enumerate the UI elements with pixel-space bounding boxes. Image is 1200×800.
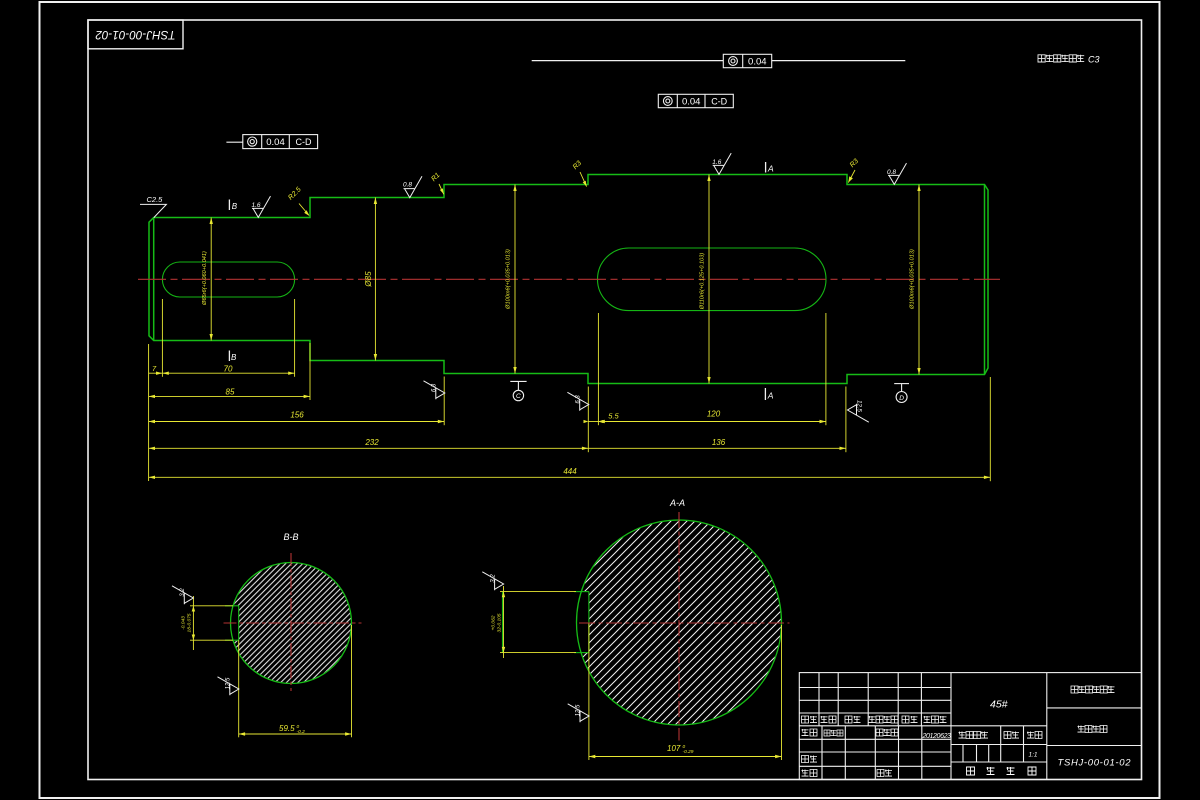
svg-text:A: A [767,391,774,401]
section mark A bottom [765,388,773,401]
svg-text:C: C [516,393,521,400]
fillet label R1 [430,172,444,195]
svg-text:156: 156 [290,411,304,420]
dimension dia100m6 right [910,185,921,375]
svg-text:1:1: 1:1 [1029,752,1038,759]
section A-A keyway notch [503,592,589,653]
svg-text:Ø85: Ø85 [364,271,373,288]
svg-text:0.04: 0.04 [748,57,767,68]
svg-text:136: 136 [712,438,726,447]
svg-text:107: 107 [667,744,681,753]
stage mark weight scale labels [959,732,1043,739]
section B-B roughness 12.5 [218,677,239,696]
svg-text:0.04: 0.04 [266,137,285,148]
section B-B keyway notch [225,606,239,640]
section mark B bottom [229,351,237,363]
section B-B width dim 59.5 [239,625,352,737]
datum C [510,381,526,400]
svg-text:Ø100m6(+0.035+0.013): Ø100m6(+0.035+0.013) [506,249,512,310]
svg-text:0.8: 0.8 [887,169,896,176]
svg-text:C-D: C-D [711,97,727,107]
section B-B keyway width dim [181,596,234,650]
extension lines lower dims [149,299,991,481]
svg-text:-0.29: -0.29 [683,749,694,755]
keyway slot S4 [598,248,827,311]
chamfer line right end [984,185,986,375]
svg-text:B: B [231,353,237,362]
svg-text:18-0.075: 18-0.075 [187,613,193,632]
fillet label R3 at S4/S5 [848,158,860,183]
shaft outline [149,175,988,384]
roughness 1.6 on S4 [712,153,731,174]
roughness 0.8 on S2 [403,176,422,197]
chamfer line left end [153,218,155,341]
section B-B hatched circle [192,560,354,686]
section A-A keyway width dim [491,586,577,658]
svg-text:59.5: 59.5 [279,724,295,733]
dimension 5.5 [584,411,620,423]
roughness 0.8 on S5 [887,163,907,184]
title block header row labels [802,716,947,723]
dimension 7 and 70 [149,364,295,375]
dimension 136 [588,438,846,450]
svg-text:444: 444 [563,467,577,476]
svg-text:-0.043: -0.043 [181,616,187,630]
svg-text:120: 120 [707,409,721,418]
svg-text:12.5: 12.5 [576,704,582,716]
svg-text:6.3: 6.3 [575,395,581,404]
section A-A roughness 12.5 [568,704,589,723]
roughness 12.5 at S4/S5 shoulder [848,400,869,422]
tolerance frame concentricity 0.04 C-D middle [658,94,733,107]
svg-text:3.2: 3.2 [180,588,186,597]
svg-text:0: 0 [683,744,686,750]
svg-text:C3: C3 [1088,55,1100,65]
dimension dia85 [364,198,377,361]
svg-text:+0.062: +0.062 [491,615,497,630]
part name [1078,726,1108,733]
svg-text:1.6: 1.6 [252,202,261,209]
svg-text:32-0.105: 32-0.105 [497,613,503,632]
title block row design [802,729,952,740]
tolerance frame concentricity 0.04 top [532,54,906,67]
main centerline [138,278,1000,280]
section mark B top [229,200,237,212]
dimension 232 [149,438,589,450]
svg-text:6.3: 6.3 [432,383,438,392]
section A-A hatched circle [501,519,785,729]
svg-text:3.2: 3.2 [490,574,496,583]
dimension 120 [598,409,826,423]
svg-text:0.04: 0.04 [682,97,701,108]
roughness 6.3 at S2/S3 shoulder [424,381,445,400]
fillet label R2.5 [287,186,309,216]
svg-text:A-A: A-A [669,498,685,508]
note unnoted chamfers C3 [1038,55,1100,65]
svg-text:1.6: 1.6 [712,159,721,166]
svg-text:0: 0 [297,724,300,730]
university name [1071,686,1115,693]
tolerance frame concentricity 0.04 C-D left [226,135,317,149]
dimension 444 [149,467,991,479]
dimension 85 [149,387,310,398]
svg-text:TSHJ-00-01-02: TSHJ-00-01-02 [95,28,176,40]
datum D [894,384,909,403]
svg-text:0.8: 0.8 [403,181,412,188]
svg-text:232: 232 [364,438,379,447]
svg-text:Ø110r6(+0.125+0.103): Ø110r6(+0.125+0.103) [700,253,706,311]
svg-text:C-D: C-D [296,137,312,147]
dimension 156 [149,411,445,424]
chamfer label C2.5 [140,195,166,218]
svg-text:D: D [899,395,904,402]
keyway slot S1 [162,262,294,297]
svg-text:Ø65r6(+0.060+0.041): Ø65r6(+0.060+0.041) [202,251,208,306]
svg-text:12.5: 12.5 [226,677,232,689]
section A-A roughness 3.2 [482,572,503,591]
title block grid [799,673,1141,780]
svg-text:B-B: B-B [283,532,298,542]
section A-A width dim 107 [589,623,782,761]
svg-text:-0.2: -0.2 [297,729,306,735]
dimension dia65r6 [202,218,213,341]
drawing number box top-left [88,20,183,49]
svg-text:20120623: 20120623 [922,733,952,740]
section mark A top [766,162,774,174]
svg-text:5.5: 5.5 [608,411,619,420]
svg-text:12.5: 12.5 [856,400,862,412]
title block row checker [802,756,818,763]
section B-B centerlines [224,553,362,691]
title block row process [802,770,893,777]
section B-B roughness 3.2 [172,586,193,605]
dimension dia100m6 left [506,185,517,374]
svg-text:TSHJ-00-01-02: TSHJ-00-01-02 [1058,758,1132,769]
section A-A centerlines [579,512,790,741]
svg-text:85: 85 [226,387,235,396]
dimension dia110r6 [700,175,711,384]
svg-text:Ø100m6(+0.035+0.013): Ø100m6(+0.035+0.013) [910,249,916,310]
svg-text:A: A [767,164,774,174]
sheet count row [967,767,1037,775]
svg-text:C2.5: C2.5 [147,195,164,204]
svg-text:B: B [232,202,238,211]
svg-text:70: 70 [224,364,233,373]
fillet label R3 at S3/S4 [572,160,587,187]
roughness 1.6 on S1 [252,196,271,217]
svg-text:45#: 45# [990,699,1008,711]
roughness 6.3 at S3/S4 shoulder [567,392,588,411]
